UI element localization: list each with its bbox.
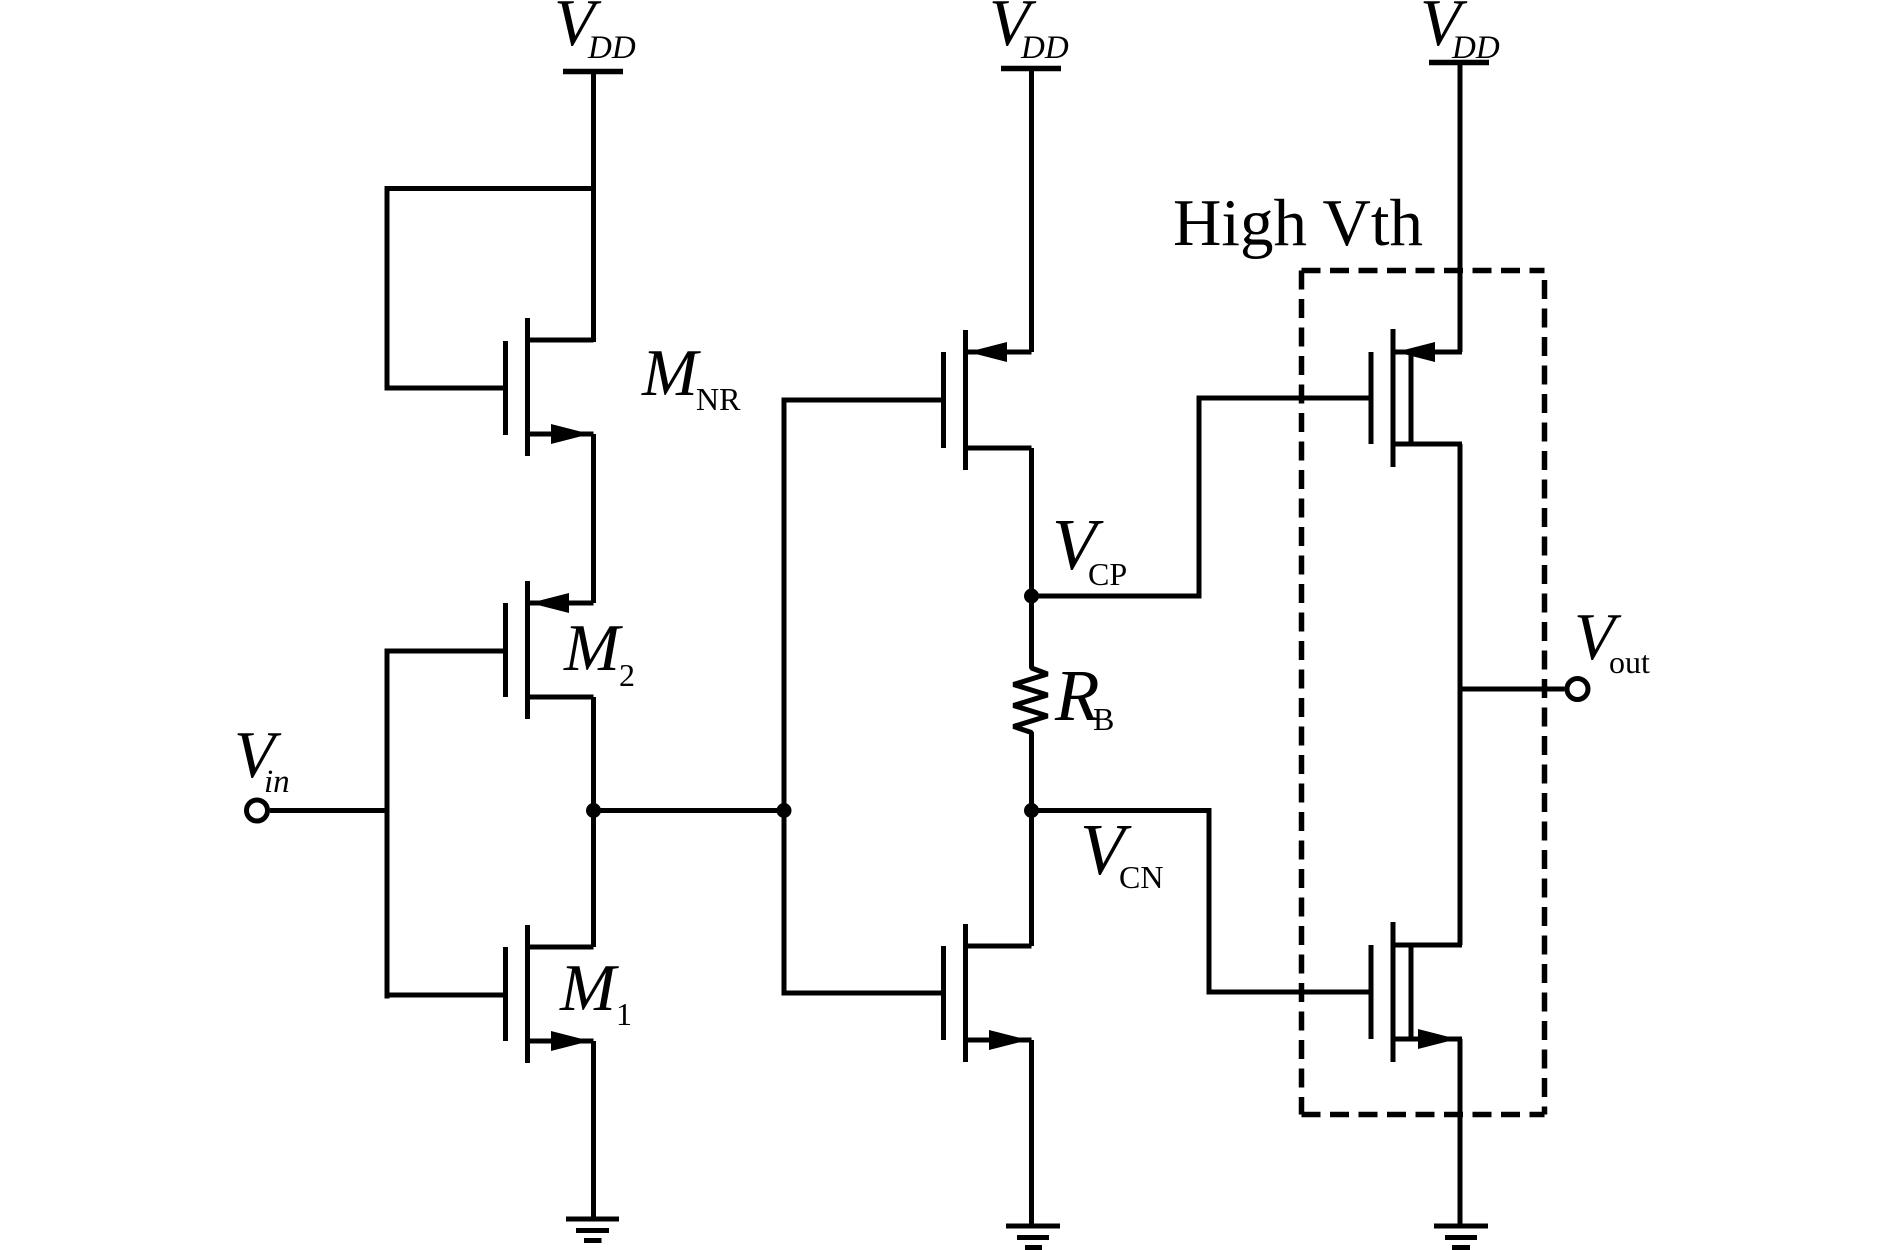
wire VDD1 to MNR drain	[591, 72, 596, 343]
transistor M1 source lead	[528, 1039, 594, 1044]
transistor MNR source arrow	[551, 424, 590, 444]
transistor middle NMOS gate bar	[941, 946, 946, 1040]
svg-text:DD: DD	[1020, 30, 1069, 66]
power VDD1 supply bar	[563, 69, 623, 75]
svg-text:2: 2	[619, 657, 635, 693]
transistor M1 source arrow	[551, 1031, 590, 1051]
terminal Vin circle	[247, 800, 268, 821]
transistor right PMOS source lead	[1393, 350, 1462, 355]
wire M1 source to ground	[591, 1041, 596, 1219]
transistor M2 channel bar	[525, 581, 530, 719]
transistor right PMOS gate bar	[1369, 352, 1374, 444]
wire M2 drain to M1 drain	[591, 697, 596, 947]
transistor M2 drain lead	[528, 695, 594, 700]
transistor MNR source lead	[528, 432, 594, 437]
ground left	[566, 1219, 619, 1241]
transistor M1 label	[559, 951, 632, 1032]
wire gate line M1-M2	[385, 649, 390, 999]
node Vin label	[234, 718, 290, 800]
power VDD2 supply bar	[1001, 66, 1061, 72]
transistor M2 gate bar	[503, 603, 508, 697]
svg-text:M: M	[563, 611, 623, 685]
wire VDD2 to middle PMOS source	[1029, 69, 1034, 353]
transistor middle PMOS source arrow	[968, 342, 1007, 362]
terminal Vout circle	[1567, 679, 1588, 700]
transistor right NMOS gate bar	[1369, 945, 1374, 1039]
node VCP label	[1052, 504, 1127, 592]
transistor right PMOS body bar	[1409, 352, 1414, 444]
wire middle PMOS drain to VCP	[1029, 448, 1034, 604]
wire MNR source to M2 source	[591, 434, 596, 603]
transistor M2 source arrow	[530, 593, 569, 613]
svg-text:NR: NR	[696, 381, 741, 417]
svg-text:1: 1	[616, 996, 632, 1032]
resistor RB label	[1054, 655, 1114, 737]
node first-stage output junction dot	[586, 803, 601, 818]
wire middle NMOS source to ground	[1029, 1040, 1034, 1226]
wire right PMOS drain to right NMOS drain	[1458, 444, 1463, 945]
transistor right NMOS drain lead	[1393, 943, 1462, 948]
node middle gate junction dot	[777, 803, 792, 818]
svg-text:B: B	[1093, 701, 1114, 737]
node VCN junction dot	[1024, 803, 1039, 818]
transistor M2 gate lead	[387, 649, 503, 654]
transistor middle NMOS drain lead	[966, 944, 1032, 949]
svg-text:DD: DD	[587, 30, 636, 66]
transistor right NMOS source arrow	[1418, 1029, 1457, 1049]
svg-text:out: out	[1609, 644, 1650, 680]
transistor right NMOS body bar	[1409, 945, 1414, 1039]
transistor middle PMOS drain lead	[966, 446, 1032, 451]
node VCN label	[1080, 809, 1163, 895]
transistor middle PMOS channel bar	[963, 330, 968, 470]
svg-text:in: in	[264, 764, 290, 800]
svg-text:High Vth: High Vth	[1173, 186, 1423, 260]
transistor middle NMOS channel bar	[963, 924, 968, 1062]
wire VDD3 to right PMOS source	[1458, 63, 1463, 353]
svg-text:CP: CP	[1088, 556, 1127, 592]
wire Vin to gate line	[270, 808, 387, 813]
ground middle	[1006, 1226, 1060, 1248]
transistor M1 gate lead	[387, 993, 503, 998]
transistor M2 source lead	[528, 601, 594, 606]
transistor right NMOS channel bar	[1391, 922, 1396, 1062]
transistor middle NMOS source arrow	[989, 1030, 1028, 1050]
wire MNR gate-drain loop	[387, 189, 594, 389]
transistor MNR gate bar	[503, 341, 508, 435]
transistor middle NMOS gate lead	[784, 991, 941, 996]
transistor MNR channel bar	[525, 318, 530, 456]
transistor M1 channel bar	[525, 925, 530, 1063]
transistor right NMOS source lead	[1393, 1037, 1462, 1042]
transistor middle PMOS gate lead	[784, 398, 941, 403]
node VCP junction dot	[1024, 589, 1039, 604]
label High Vth	[1173, 186, 1423, 260]
transistor middle PMOS gate bar	[941, 352, 946, 448]
transistor M1 gate bar	[503, 947, 508, 1041]
transistor M1 drain lead	[528, 945, 594, 950]
transistor middle PMOS source lead	[966, 350, 1032, 355]
transistor MNR label	[641, 336, 741, 417]
wire VCP to right PMOS gate	[1032, 398, 1369, 596]
power VDD3 label	[1420, 0, 1500, 66]
ground right	[1434, 1226, 1488, 1248]
power VDD2 label	[989, 0, 1069, 66]
wire Vout	[1460, 687, 1565, 692]
transistor right PMOS channel bar	[1391, 329, 1396, 467]
wire first-stage output to middle gates	[594, 808, 785, 813]
svg-text:CN: CN	[1119, 859, 1163, 895]
transistor middle NMOS source lead	[966, 1038, 1032, 1043]
transistor right PMOS source arrow	[1396, 342, 1435, 362]
wire middle NMOS drain to VCN	[1029, 811, 1034, 947]
power VDD1 label	[554, 0, 636, 66]
node Vout label	[1574, 600, 1650, 680]
svg-text:M: M	[559, 951, 619, 1025]
power VDD3 supply bar	[1429, 60, 1489, 66]
transistor M2 label	[563, 611, 635, 693]
wire right NMOS source to ground	[1458, 1039, 1463, 1226]
svg-text:M: M	[641, 336, 701, 410]
transistor MNR drain lead	[528, 338, 594, 343]
dashed high-Vth box	[1302, 271, 1545, 1115]
resistor RB	[1014, 603, 1048, 811]
wire VCN to right NMOS gate	[1032, 811, 1369, 993]
wire middle gate line	[782, 398, 787, 996]
transistor right PMOS drain lead	[1393, 442, 1462, 447]
